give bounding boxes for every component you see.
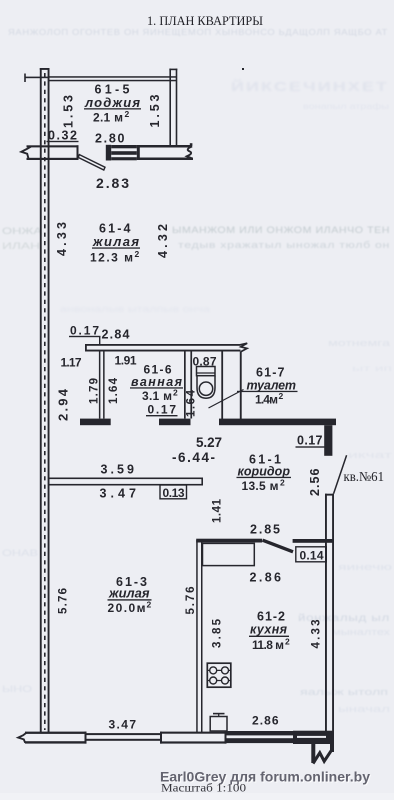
entrance door leaf — [334, 455, 347, 493]
svg-text:яинечю: яинечю — [338, 562, 392, 572]
bottom outer wall: left break — [18, 733, 26, 743]
svg-text:2.84: 2.84 — [102, 328, 130, 342]
svg-text:ЯАНЖОЛОП ОГОНТЕВ ОН ЯИНЕЩЕМОП: ЯАНЖОЛОП ОГОНТЕВ ОН ЯИНЕЩЕМОП ХЫНВОНСО Ь… — [8, 27, 388, 37]
wall between room 61-3 and corridor (thin hollow) — [50, 478, 204, 486]
svg-text:кв.№61: кв.№61 — [344, 469, 385, 484]
bottom wall of bathroom block: piece 1 — [80, 419, 111, 426]
svg-text:2: 2 — [280, 478, 285, 488]
top extension line with tick — [24, 74, 48, 83]
svg-text:ОНАВ: ОНАВ — [2, 548, 38, 558]
svg-text:4.33: 4.33 — [311, 620, 323, 649]
svg-text:мотнемга: мотнемга — [328, 338, 391, 349]
stray scan dot — [242, 68, 244, 70]
kitchen window (thick double bar) — [227, 731, 294, 743]
apartment right wall (кв.61 side) — [325, 494, 334, 732]
svg-text:12.3 м: 12.3 м — [90, 251, 133, 265]
svg-text:0.87: 0.87 — [193, 355, 217, 369]
svg-text:4.32: 4.32 — [156, 224, 170, 258]
svg-text:-6.44-: -6.44- — [172, 450, 215, 465]
svg-text:анвоналыв ыталпыв онча: анвоналыв ыталпыв онча — [60, 304, 210, 314]
wall between bathroom and toilet — [184, 352, 192, 419]
svg-text:1.4м: 1.4м — [255, 393, 278, 407]
svg-text:лоджия: лоджия — [84, 95, 140, 110]
kitchen stove (4 burners) — [207, 663, 231, 687]
svg-text:4.33: 4.33 — [55, 222, 69, 256]
svg-text:2.80: 2.80 — [95, 132, 125, 146]
bottom outer wall piece (under room 61-3 left) — [25, 732, 87, 744]
balcony window: black jamb + triple-bar window — [106, 145, 137, 161]
bottom wall piece 3 (continues to entrance corner) — [219, 419, 336, 426]
svg-text:2: 2 — [125, 109, 130, 119]
loggia right wall upper segment — [169, 69, 177, 146]
wall between room 61-4 and corridor / bath block (top wall of bathroom) — [85, 343, 247, 351]
svg-text:1.53: 1.53 — [62, 95, 76, 128]
svg-text:туалет: туалет — [247, 379, 297, 393]
svg-text:2: 2 — [135, 249, 140, 259]
svg-text:1.64: 1.64 — [108, 377, 120, 404]
loggia top wall (thin double line) — [50, 76, 177, 81]
svg-text:11.8 м: 11.8 м — [252, 638, 284, 652]
svg-text:2.56: 2.56 — [308, 468, 322, 496]
kitchen wall right piece — [293, 539, 334, 543]
svg-text:13.5 м: 13.5 м — [242, 479, 279, 493]
svg-text:0.14: 0.14 — [300, 549, 324, 563]
svg-text:Масштаб 1:100: Масштаб 1:100 — [161, 781, 246, 795]
svg-text:0.17: 0.17 — [70, 324, 99, 338]
svg-text:5.27: 5.27 — [196, 435, 222, 450]
bottom right corner block — [293, 731, 334, 744]
svg-text:ЫНО: ЫНО — [2, 684, 32, 694]
svg-text:жилая: жилая — [108, 586, 150, 601]
svg-text:ЙИКСЕЧИНХЕТ: ЙИКСЕЧИНХЕТ — [231, 79, 389, 94]
toilet fixture: cistern — [197, 367, 216, 399]
svg-text:3.85: 3.85 — [212, 618, 224, 648]
svg-text:1.17: 1.17 — [61, 356, 82, 370]
svg-text:1.53: 1.53 — [148, 94, 162, 127]
svg-text:ИЛАН: ИЛАН — [2, 241, 40, 252]
svg-text:3.47: 3.47 — [109, 718, 137, 732]
entrance corner leg — [324, 425, 332, 456]
svg-text:1.91: 1.91 — [115, 354, 137, 368]
svg-text:2.94: 2.94 — [56, 388, 71, 421]
svg-text:2: 2 — [147, 600, 152, 610]
svg-text:тедыв хражатыл ыножал тюлб он: тедыв хражатыл ыножал тюлб он — [178, 240, 390, 251]
svg-text:2: 2 — [279, 391, 284, 401]
toilet right wall (thin) — [221, 352, 223, 420]
svg-text:ЫМАНЖОМ ИЛИ ОНЖОМ ИЛАНЧО ТЕН: ЫМАНЖОМ ИЛИ ОНЖОМ ИЛАНЧО ТЕН — [172, 225, 390, 236]
svg-text:1.41: 1.41 — [212, 498, 224, 523]
svg-text:вонапыл атрафы: вонапыл атрафы — [303, 101, 389, 111]
duct shaft right line — [240, 352, 242, 420]
kitchen / corridor wall (left piece) — [196, 539, 262, 543]
svg-text:1.79: 1.79 — [89, 378, 101, 404]
svg-text:5.76: 5.76 — [185, 587, 197, 615]
wall between loggia and room 61-4: left masonry piece with break — [21, 145, 78, 160]
box around 0.13 — [160, 485, 187, 499]
svg-text:ыначал: ыначал — [338, 704, 390, 714]
svg-text:0.17: 0.17 — [148, 403, 177, 417]
svg-text:2: 2 — [173, 388, 178, 398]
svg-text:яалыж ытолп: яалыж ытолп — [300, 687, 388, 698]
wall between room 61-3 and kitchen — [196, 540, 202, 733]
svg-text:5.76: 5.76 — [58, 588, 70, 614]
svg-text:0.13: 0.13 — [163, 486, 185, 500]
bottom wall piece between windows — [160, 732, 203, 744]
svg-text:2.86: 2.86 — [252, 714, 279, 728]
svg-text:ыт ип: ыт ип — [352, 363, 393, 373]
box around 0.14 — [296, 547, 327, 562]
balcony door leaf (open, diagonal) — [78, 155, 105, 170]
svg-text:2.83: 2.83 — [96, 175, 129, 191]
exterior left wall (double line with axis dashes) — [40, 68, 50, 732]
svg-text:жилая: жилая — [92, 234, 139, 249]
svg-text:3.47: 3.47 — [100, 487, 137, 501]
svg-text:61-2: 61-2 — [257, 610, 285, 624]
svg-text:1.64: 1.64 — [186, 389, 198, 417]
wall piece right of window with break at end — [137, 143, 193, 160]
svg-text:коридор: коридор — [238, 465, 291, 479]
svg-text:3.59: 3.59 — [101, 463, 135, 477]
svg-text:0.17: 0.17 — [297, 434, 323, 448]
bottom wall piece left of kitchen window — [203, 732, 227, 744]
leader line from toilet door to label — [209, 390, 244, 409]
wall stub going down with break — [311, 744, 334, 764]
svg-text:2.1 м: 2.1 м — [93, 111, 123, 125]
bottom wall piece 2 — [159, 419, 191, 426]
svg-text:61-7: 61-7 — [256, 366, 285, 380]
svg-text:0.32: 0.32 — [48, 129, 77, 143]
svg-text:3.1 м: 3.1 м — [142, 389, 172, 403]
bathroom left wall — [99, 352, 105, 419]
built-in closet in corridor — [203, 543, 255, 565]
svg-text:мыналтех: мыналтех — [332, 627, 391, 637]
svg-text:2.85: 2.85 — [250, 523, 280, 537]
kitchen sink — [210, 714, 227, 731]
svg-text:1. ПЛАН КВАРТИРЫ: 1. ПЛАН КВАРТИРЫ — [147, 13, 263, 28]
kitchen door leaf — [263, 540, 293, 552]
svg-text:2: 2 — [285, 637, 290, 647]
window of room 61-3 — [87, 733, 161, 741]
svg-text:икчат: икчат — [348, 450, 392, 460]
svg-text:кухня: кухня — [250, 623, 288, 637]
svg-text:20.0м: 20.0м — [108, 601, 146, 615]
svg-text:2.86: 2.86 — [250, 571, 282, 585]
svg-text:ОНЖА: ОНЖА — [2, 226, 43, 237]
